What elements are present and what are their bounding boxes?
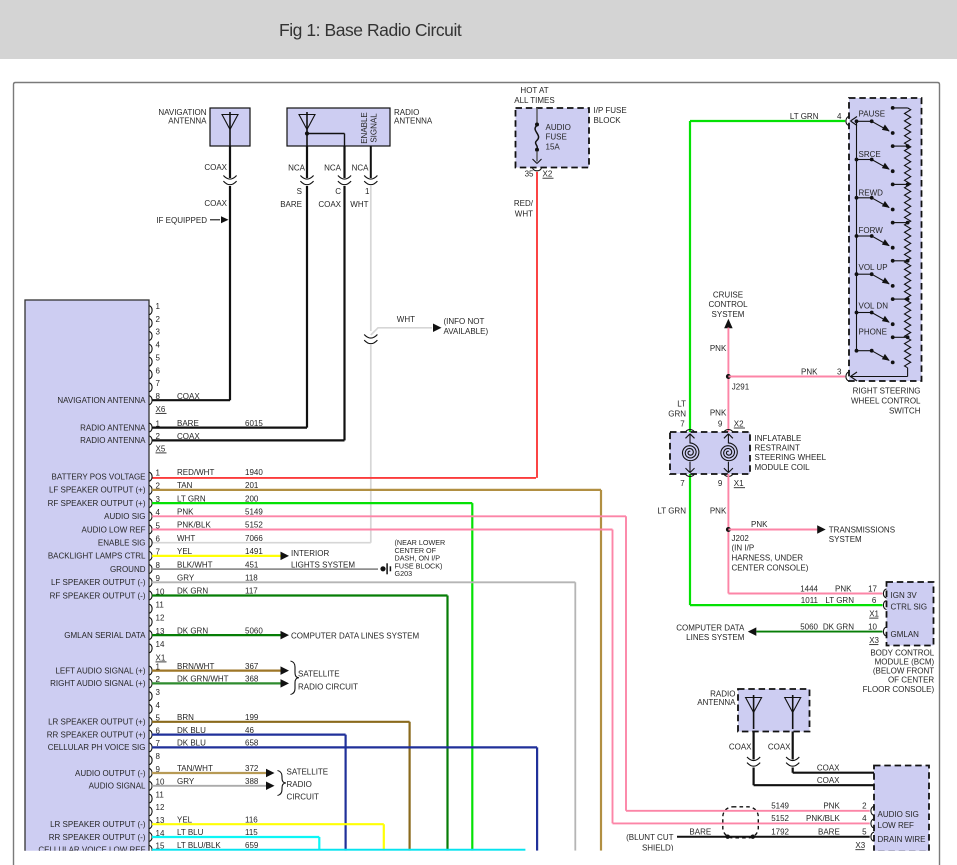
svg-text:YEL: YEL [177,815,193,824]
svg-text:PHONE: PHONE [859,328,887,337]
wire DK GRN 5060 gmlan serial [152,631,289,640]
svg-text:WHT: WHT [177,534,195,543]
svg-text:3: 3 [156,688,161,697]
svg-text:PNK: PNK [177,508,194,517]
svg-text:BLK/WHT: BLK/WHT [177,560,213,569]
label CRUISE CONTROL SYSTEM with arrow [708,291,748,329]
svg-text:451: 451 [245,560,259,569]
switch bus wire [856,121,858,350]
svg-text:X1: X1 [734,479,744,488]
svg-text:SYSTEM: SYSTEM [712,310,745,319]
svg-text:NCA: NCA [352,164,370,173]
bottom antenna symbol 1 [746,695,762,729]
caption body control module [863,648,935,693]
svg-text:INFLATABLE: INFLATABLE [755,434,802,443]
svg-text:(IN I/P: (IN I/P [732,544,755,553]
svg-text:CELLULAR VOICE LOW REF: CELLULAR VOICE LOW REF [38,846,145,855]
wire COAX bottom antenna 1 [729,732,874,786]
svg-text:2: 2 [156,432,161,441]
svg-text:X2: X2 [734,419,744,428]
svg-text:6015: 6015 [245,419,263,428]
svg-text:INTERIOR: INTERIOR [291,549,329,558]
svg-text:8: 8 [156,752,161,761]
wire RED/WHT 1940 fuse to X1 pin 1 [152,172,537,478]
svg-text:LT GRN: LT GRN [177,494,206,503]
wire DK GRN/WHT 368 [152,679,289,688]
svg-text:7: 7 [680,419,685,428]
connector X1 BCM [869,609,879,618]
svg-text:ALL TIMES: ALL TIMES [514,96,554,105]
switch SRCE [855,144,910,173]
svg-text:HARNESS, UNDER: HARNESS, UNDER [732,554,804,563]
svg-text:IGN 3V: IGN 3V [891,591,918,600]
wire PNK J202 to transmissions system [728,520,825,534]
svg-text:116: 116 [245,815,258,824]
wire BARE 6015 radio antenna S to X5 pin 1 [152,146,307,428]
radio antenna symbol [299,112,315,146]
svg-text:DK GRN: DK GRN [823,623,854,632]
svg-text:12: 12 [156,614,165,623]
svg-text:BARE: BARE [280,200,302,209]
label SATELLITE RADIO CIRCUIT lower [278,767,329,801]
svg-text:DK GRN: DK GRN [177,587,208,596]
bottom antenna symbol 2 [785,695,801,729]
wire PNK coil pin9 to BCM pin17 1444 [728,474,882,594]
svg-text:4: 4 [837,112,842,121]
svg-text:SRCE: SRCE [859,150,881,159]
svg-text:RF SPEAKER OUTPUT (-): RF SPEAKER OUTPUT (-) [50,591,146,600]
svg-text:RESTRAINT: RESTRAINT [755,444,800,453]
svg-text:14: 14 [156,640,165,649]
BCM pin 6 CTRL SIG [801,596,927,611]
wire BRN 199 [152,722,410,851]
label RADIO ANTENNA bottom [697,690,736,708]
svg-text:372: 372 [245,764,259,773]
svg-text:115: 115 [245,828,258,837]
svg-text:X2: X2 [543,170,553,179]
svg-text:PNK: PNK [710,507,727,516]
svg-text:COMPUTER DATA: COMPUTER DATA [676,623,745,632]
wire LT GRN switch pin4 to coil pin7 to BCM pin6 1011 [690,121,883,605]
svg-text:6: 6 [156,366,161,375]
svg-text:PNK/BLK: PNK/BLK [806,814,840,823]
svg-text:1792: 1792 [771,827,789,836]
ground G203 [380,563,390,574]
wire DK GRN 5060 BCM to computer data lines [748,627,883,636]
svg-text:5152: 5152 [245,521,263,530]
svg-text:NCA: NCA [324,164,342,173]
svg-text:199: 199 [245,713,259,722]
I/P fuse block box [516,108,590,168]
svg-text:RADIO ANTENNA: RADIO ANTENNA [80,436,146,445]
svg-text:6: 6 [872,596,877,605]
connector X1 radio group B pins 1-15 [38,662,259,855]
svg-text:658: 658 [245,739,259,748]
svg-text:11: 11 [156,790,165,799]
wire YEL 116 [152,824,384,850]
pin 4 label [790,112,842,121]
svg-text:LF SPEAKER OUTPUT (-): LF SPEAKER OUTPUT (-) [51,578,146,587]
svg-text:WHEEL CONTROL: WHEEL CONTROL [851,396,921,405]
wire TAN 201 [152,490,601,851]
svg-text:COAX: COAX [177,432,200,441]
svg-text:GMLAN SERIAL DATA: GMLAN SERIAL DATA [64,631,146,640]
radio antenna box bottom [738,689,810,732]
svg-text:CENTER CONSOLE): CENTER CONSOLE) [732,564,809,573]
wire PNK/BLK 5152 [152,530,870,824]
BCM pin 10 GMLAN [800,623,919,639]
coil L1 [683,434,699,473]
svg-text:TRANSMISSIONS: TRANSMISSIONS [829,525,895,534]
svg-text:LR SPEAKER OUTPUT (-): LR SPEAKER OUTPUT (-) [50,820,146,829]
svg-text:BODY CONTROL: BODY CONTROL [870,648,934,657]
svg-text:1011: 1011 [801,596,819,605]
svg-text:NAVIGATION ANTENNA: NAVIGATION ANTENNA [57,396,146,405]
wire LT GRN 200 [152,503,472,850]
break symbol on BARE wire [300,176,313,185]
svg-text:RADIO ANTENNA: RADIO ANTENNA [80,423,146,432]
svg-text:TAN/WHT: TAN/WHT [177,764,213,773]
wire TAN/WHT 372 [152,769,275,778]
svg-text:CRUISE: CRUISE [713,291,743,300]
label J202 harness note [732,534,809,573]
svg-text:DK BLU: DK BLU [177,739,206,748]
label PNK below coil [710,507,727,516]
svg-text:WHT: WHT [397,315,415,324]
svg-text:1491: 1491 [245,547,263,556]
svg-text:DRAIN WIRE: DRAIN WIRE [878,835,926,844]
svg-text:COAX: COAX [817,776,840,785]
label COMPUTER DATA LINES SYSTEM left [291,631,420,640]
svg-text:7: 7 [680,479,685,488]
svg-text:GROUND: GROUND [110,565,146,574]
switch VOL DN [855,297,910,326]
connector X1 coil bottom [680,473,745,488]
svg-text:AUDIO SIGNAL: AUDIO SIGNAL [89,782,146,791]
svg-text:SHIELD): SHIELD) [642,843,674,852]
svg-text:WHT: WHT [515,210,533,219]
svg-text:SWITCH: SWITCH [889,406,921,415]
connector X5 pins 1-2 [80,419,263,453]
svg-text:S: S [297,187,302,196]
svg-text:BARE: BARE [689,827,711,836]
svg-text:5: 5 [862,827,867,836]
label COMPUTER DATA LINES SYSTEM right [676,623,745,642]
svg-text:NCA: NCA [288,164,306,173]
wire BRN/WHT 367 [152,666,289,675]
svg-text:PNK: PNK [710,409,727,418]
svg-text:J291: J291 [732,382,750,391]
svg-text:PNK: PNK [835,585,852,594]
label INTERIOR LIGHTS SYSTEM [291,549,355,570]
svg-text:RADIO CIRCUIT: RADIO CIRCUIT [298,682,358,691]
svg-text:LIGHTS SYSTEM: LIGHTS SYSTEM [291,560,355,569]
svg-text:6: 6 [156,535,161,544]
title Fig 1: Base Radio Circuit [279,20,461,41]
switch PHONE [855,328,910,365]
label NAVIGATION ANTENNA [158,108,207,126]
svg-text:COAX: COAX [768,742,791,751]
svg-text:GRN: GRN [668,409,686,418]
svg-text:LT BLU/BLK: LT BLU/BLK [177,841,221,850]
svg-text:8: 8 [156,392,161,401]
svg-text:(BELOW FRONT: (BELOW FRONT [873,667,934,676]
svg-text:5149: 5149 [771,802,789,811]
body control module BCM box [887,582,934,646]
svg-text:X3: X3 [869,636,879,645]
svg-text:ANTENNA: ANTENNA [394,117,433,126]
break symbol coax bottom 1 [747,757,760,766]
svg-text:DK GRN/WHT: DK GRN/WHT [177,675,229,684]
connector X6 pins 1-8 [149,302,161,405]
switch PAUSE [855,106,908,135]
svg-text:200: 200 [245,494,259,503]
svg-text:STEERING WHEEL: STEERING WHEEL [755,453,827,462]
svg-text:3: 3 [837,368,842,377]
svg-text:CELLULAR PH VOICE SIG: CELLULAR PH VOICE SIG [48,743,146,752]
wire YEL 1491 to interior lights [152,552,289,561]
svg-text:388: 388 [245,777,259,786]
svg-text:PNK/BLK: PNK/BLK [177,521,211,530]
svg-text:GRY: GRY [177,574,195,583]
switch VOL UP [855,259,910,288]
wire PNK 5149 [152,516,870,811]
wire DK BLU 46 [152,735,346,851]
svg-text:COAX: COAX [204,163,227,172]
svg-text:CONTROL: CONTROL [708,300,748,309]
svg-text:7066: 7066 [245,534,263,543]
svg-text:5149: 5149 [245,508,263,517]
svg-text:CTRL SIG: CTRL SIG [891,603,928,612]
svg-text:201: 201 [245,481,259,490]
switch REWD [855,183,910,212]
svg-text:ANTENNA: ANTENNA [697,698,736,707]
label ground location G203 [395,538,446,578]
right steering wheel control switch box [849,98,922,381]
svg-text:35: 35 [525,170,534,179]
wire BARE 1792 blunt cut shield drain [626,827,870,852]
wire GRY 118 [152,582,575,850]
break symbol on navigation coax [223,176,236,185]
svg-text:X5: X5 [156,444,166,453]
svg-text:WHT: WHT [350,200,368,209]
amp pin 4 LOW REF [771,814,914,830]
svg-text:AUDIO SIG: AUDIO SIG [878,810,919,819]
svg-text:1: 1 [365,187,370,196]
svg-text:TAN: TAN [177,481,193,490]
wire COAX radio antenna C to X5 pin 2 [152,146,345,440]
branch WHT to info not available [371,315,489,336]
svg-text:12: 12 [156,803,165,812]
svg-text:AUDIO: AUDIO [546,123,571,132]
svg-text:COAX: COAX [817,763,840,772]
svg-text:FLOOR CONSOLE): FLOOR CONSOLE) [863,685,935,694]
svg-text:COAX: COAX [204,199,227,208]
svg-text:COAX: COAX [729,742,752,751]
svg-text:659: 659 [245,841,259,850]
label IF EQUIPPED with arrow [156,216,228,225]
junction J291 [726,374,750,391]
svg-text:ENABLE SIG: ENABLE SIG [98,539,146,548]
svg-text:7: 7 [156,379,161,388]
svg-text:2: 2 [862,802,867,811]
svg-text:LF SPEAKER OUTPUT (+): LF SPEAKER OUTPUT (+) [49,486,146,495]
svg-text:17: 17 [868,585,877,594]
svg-text:RF SPEAKER OUTPUT (+): RF SPEAKER OUTPUT (+) [48,499,146,508]
label LT GRN below coil [657,507,686,516]
svg-text:368: 368 [245,675,259,684]
svg-text:4: 4 [156,701,161,710]
svg-text:BARE: BARE [177,419,199,428]
pin3 connector bump [846,372,849,381]
svg-text:RED/WHT: RED/WHT [177,468,214,477]
radio connector block [25,300,149,856]
svg-text:LOW REF: LOW REF [878,821,915,830]
svg-text:PAUSE: PAUSE [859,110,886,119]
label TRANSMISSIONS SYSTEM [829,525,895,544]
svg-text:RIGHT STEERING: RIGHT STEERING [853,386,921,395]
label LT GRN above coil [668,400,686,419]
navigation antenna box [210,108,250,146]
label ENABLE SIGNAL vertical [360,112,379,144]
svg-text:11: 11 [156,601,165,610]
junction J202 [726,527,731,532]
shield symbol around audio pair [723,807,759,838]
svg-text:GRY: GRY [177,777,195,786]
svg-text:(INFO NOT: (INFO NOT [444,317,485,326]
svg-text:1940: 1940 [245,468,263,477]
svg-text:FORW: FORW [859,226,884,235]
svg-text:2: 2 [156,315,161,324]
wire GRY 388 [152,782,275,791]
label RADIO ANTENNA [394,108,433,126]
connector X2 coil top [680,419,745,432]
svg-text:RIGHT AUDIO SIGNAL (+): RIGHT AUDIO SIGNAL (+) [50,679,146,688]
svg-text:LT BLU: LT BLU [177,828,204,837]
svg-text:OF CENTER: OF CENTER [888,676,934,685]
svg-text:LR SPEAKER OUTPUT (+): LR SPEAKER OUTPUT (+) [48,718,146,727]
amp pin 2 AUDIO SIG [771,802,919,819]
svg-text:AVAILABLE): AVAILABLE) [444,327,489,336]
svg-text:J202: J202 [732,534,750,543]
pin 8 COAX navigation antenna label [57,392,200,414]
connector X1 radio group A pins 1-14 [48,468,264,662]
svg-text:SATELLITE: SATELLITE [298,670,340,679]
svg-text:5: 5 [156,353,161,362]
wire PNK J291 to switch pin3 [728,376,845,378]
caption right steering wheel control switch [851,386,921,415]
svg-text:RR SPEAKER OUTPUT (-): RR SPEAKER OUTPUT (-) [49,833,146,842]
svg-text:5060: 5060 [245,626,263,635]
label SATELLITE RADIO CIRCUIT upper [291,661,359,695]
svg-text:1: 1 [156,419,161,428]
wire LT BLU/BLK 659 [152,849,525,851]
svg-text:117: 117 [245,587,258,596]
svg-text:X1: X1 [156,653,166,662]
svg-text:1444: 1444 [800,585,818,594]
svg-text:LEFT AUDIO SIGNAL (+): LEFT AUDIO SIGNAL (+) [55,666,145,675]
fuse AUDIO FUSE 15A [533,108,571,164]
svg-text:PNK: PNK [823,802,840,811]
svg-text:HOT AT: HOT AT [520,86,548,95]
svg-text:BATTERY POS VOLTAGE: BATTERY POS VOLTAGE [52,473,146,482]
svg-text:3: 3 [156,328,161,337]
svg-text:ENABLE: ENABLE [360,112,369,144]
svg-text:46: 46 [245,726,254,735]
svg-text:I/P FUSE: I/P FUSE [594,106,627,115]
svg-text:5060: 5060 [800,623,818,632]
svg-text:LINES SYSTEM: LINES SYSTEM [686,633,745,642]
svg-text:AUDIO OUTPUT (-): AUDIO OUTPUT (-) [75,769,146,778]
svg-text:10: 10 [868,623,877,632]
amp pin 5 DRAIN WIRE [771,827,925,844]
svg-text:X3: X3 [855,841,865,850]
svg-text:15A: 15A [546,142,561,151]
break symbol coax bottom 2 [786,757,799,766]
switch FORW [855,221,910,250]
svg-text:GMLAN: GMLAN [891,630,920,639]
caption inflatable restraint steering wheel module coil [755,434,827,472]
svg-text:ANTENNA: ANTENNA [168,117,207,126]
svg-text:VOL DN: VOL DN [859,302,889,311]
pin 4 entry switch [846,117,857,126]
svg-text:RR SPEAKER OUTPUT (+): RR SPEAKER OUTPUT (+) [47,730,146,739]
svg-text:SYSTEM: SYSTEM [829,535,862,544]
svg-text:LT GRN: LT GRN [825,596,854,605]
connector X3 BCM [869,636,879,645]
svg-text:PNK: PNK [710,344,727,353]
svg-text:PNK: PNK [801,368,818,377]
svg-text:BRN/WHT: BRN/WHT [177,662,214,671]
audio amplifier box [874,766,929,852]
connector X3 amp [855,841,865,850]
svg-text:LT: LT [677,400,686,409]
svg-text:4: 4 [156,341,161,350]
svg-text:MODULE COIL: MODULE COIL [755,463,811,472]
radio antenna box [287,108,390,146]
svg-text:367: 367 [245,662,259,671]
connector 35 X2 at fuse block [525,168,554,179]
pin 3 label [801,368,842,377]
break symbol on C coax wire [338,176,351,185]
svg-text:COAX: COAX [318,200,341,209]
svg-text:BARE: BARE [818,827,840,836]
label PNK above coil [710,409,727,418]
svg-text:BRN: BRN [177,713,194,722]
wire PNK cruise branch [710,328,729,433]
svg-text:MODULE (BCM): MODULE (BCM) [875,658,935,667]
svg-text:SATELLITE: SATELLITE [287,767,329,776]
break symbol on WHT wire middle [364,335,377,344]
svg-text:SIGNAL: SIGNAL [370,113,379,143]
BCM pin 17 IGN 3V [800,585,917,601]
resistor ladder R1-R7 [905,108,911,368]
svg-text:CIRCUIT: CIRCUIT [287,792,320,801]
wire COAX bottom antenna 2 [768,732,874,773]
svg-text:1: 1 [156,302,161,311]
svg-text:BACKLIGHT LAMPS CTRL: BACKLIGHT LAMPS CTRL [48,552,146,561]
inflatable restraint steering wheel module coil box [670,432,750,474]
label HOT AT ALL TIMES [514,86,554,105]
svg-text:RADIO: RADIO [287,780,312,789]
svg-text:IF EQUIPPED: IF EQUIPPED [156,216,207,225]
break symbol on WHT wire top [364,176,377,185]
navigation antenna symbol [222,112,238,146]
svg-text:FUSE: FUSE [546,133,567,142]
svg-text:YEL: YEL [177,547,193,556]
svg-text:4: 4 [862,814,867,823]
coil L2 [721,434,737,473]
